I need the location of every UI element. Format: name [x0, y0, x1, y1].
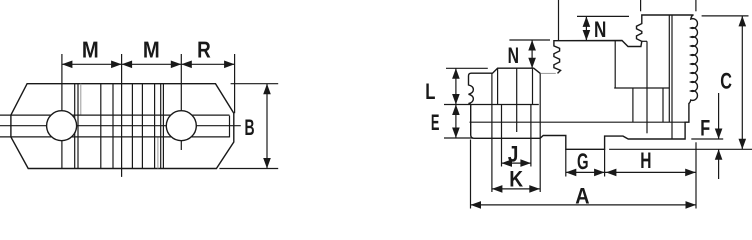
svg-text:M: M	[143, 37, 160, 63]
svg-text:A: A	[575, 184, 589, 209]
svg-text:H: H	[640, 148, 651, 173]
svg-text:L: L	[425, 79, 435, 104]
svg-text:B: B	[244, 115, 254, 140]
svg-text:C: C	[720, 69, 732, 94]
svg-text:G: G	[577, 149, 589, 174]
svg-text:K: K	[509, 167, 523, 192]
svg-text:J: J	[508, 141, 519, 166]
svg-text:M: M	[82, 37, 99, 63]
svg-text:N: N	[508, 43, 519, 68]
svg-text:E: E	[431, 110, 440, 135]
svg-text:F: F	[700, 116, 710, 141]
svg-text:R: R	[197, 37, 211, 63]
svg-text:N: N	[594, 17, 606, 42]
